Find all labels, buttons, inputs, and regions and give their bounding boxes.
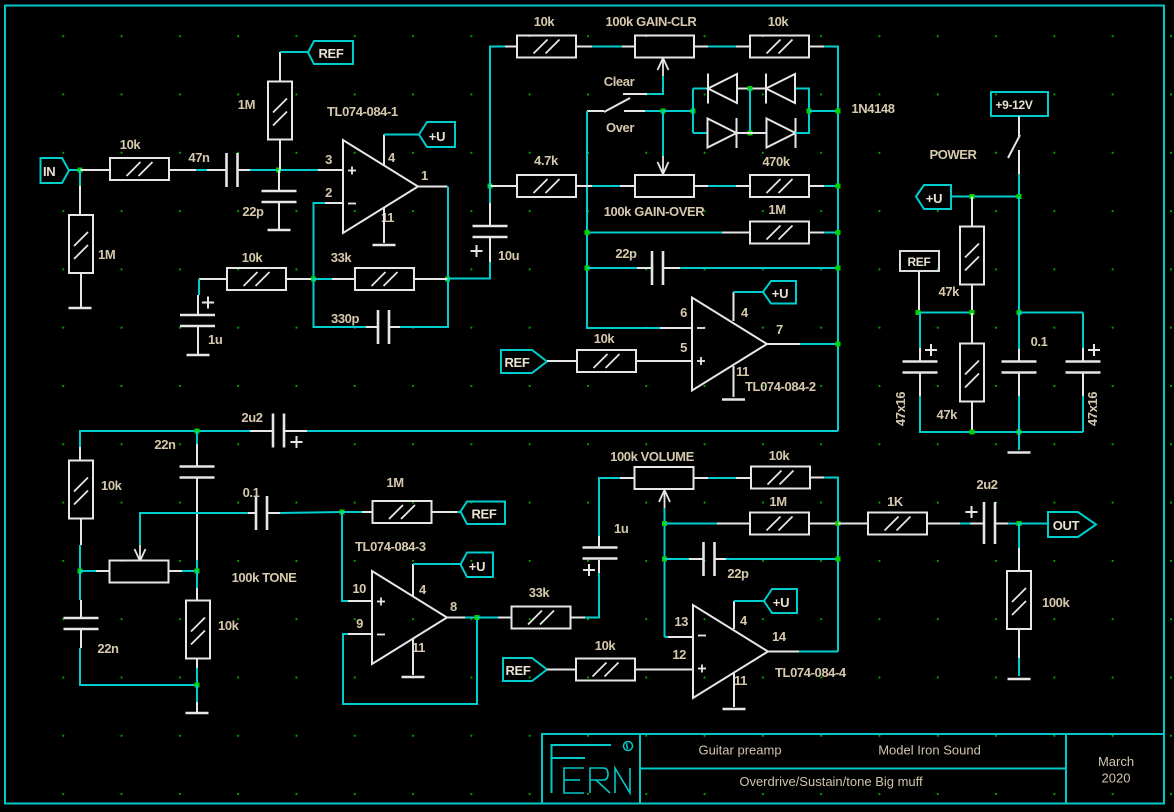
svg-text:10k: 10k bbox=[534, 14, 556, 29]
svg-text:3: 3 bbox=[325, 152, 332, 167]
svg-text:4: 4 bbox=[419, 582, 427, 597]
svg-text:Overdrive/Sustain/tone Big muf: Overdrive/Sustain/tone Big muff bbox=[739, 774, 923, 789]
wire node H to bus bbox=[809, 110, 838, 112]
svg-text:22p: 22p bbox=[727, 566, 749, 581]
svg-text:10k: 10k bbox=[101, 478, 123, 493]
svg-text:10u: 10u bbox=[498, 248, 520, 263]
resistor R8 4.7k bbox=[517, 175, 576, 197]
svg-text:Guitar preamp: Guitar preamp bbox=[698, 743, 781, 758]
capacitor C9 47x16 right bbox=[1082, 313, 1084, 349]
svg-text:6: 6 bbox=[680, 305, 687, 320]
wire output branch down bbox=[447, 187, 449, 280]
junction bus row1 bbox=[836, 109, 841, 114]
svg-text:0.1: 0.1 bbox=[243, 485, 260, 500]
node OUT junction bbox=[1017, 521, 1022, 526]
wire U1 output bbox=[418, 186, 448, 188]
node H junction diodes right bbox=[807, 109, 812, 114]
svg-text:47k: 47k bbox=[939, 284, 961, 299]
volume wiper arrow bbox=[659, 490, 670, 508]
junction diodes top middle bbox=[748, 86, 753, 91]
capacitor C10 2u2 tone bbox=[250, 430, 273, 432]
node K junction output bbox=[475, 615, 480, 620]
wire 1M row bbox=[587, 232, 722, 234]
svg-text:11: 11 bbox=[736, 364, 749, 379]
svg-text:TL074-084-3: TL074-084-3 bbox=[355, 539, 426, 554]
pin 11 ground bbox=[412, 639, 414, 675]
svg-text:330p: 330p bbox=[331, 311, 359, 326]
wire node D to R5 bbox=[314, 278, 333, 280]
junction bus row3 bbox=[836, 230, 841, 235]
svg-text:10k: 10k bbox=[594, 331, 616, 346]
svg-text:22n: 22n bbox=[154, 437, 176, 452]
title block divider middle bbox=[640, 768, 1066, 770]
connector OUT bbox=[1048, 512, 1096, 537]
resistor R7 10k top right bbox=[750, 36, 809, 58]
wire C1 to node B bbox=[238, 169, 250, 171]
ground power bbox=[1018, 432, 1020, 450]
wire R3 bottom to node B bbox=[279, 140, 281, 170]
wire node J to R16 bbox=[342, 511, 362, 513]
op-amp U4 TL074-084-4 bbox=[693, 605, 768, 698]
svg-text:100k: 100k bbox=[1042, 595, 1070, 610]
resistor R14 10k tone upper bbox=[79, 447, 81, 461]
wire node B to pin3 bbox=[279, 169, 319, 171]
svg-text:1u: 1u bbox=[208, 332, 223, 347]
capacitor C1 47n bbox=[227, 153, 238, 187]
wire pot to R9 bbox=[694, 185, 708, 187]
wire C16 to node OUT bbox=[995, 523, 1008, 525]
svg-text:0.1: 0.1 bbox=[1031, 334, 1048, 349]
power switch bbox=[1018, 116, 1020, 136]
wire REF box down bbox=[918, 271, 920, 313]
svg-text:4: 4 bbox=[741, 305, 749, 320]
node J junction bbox=[340, 510, 345, 515]
junction tone right bbox=[195, 569, 200, 574]
node D junction bbox=[311, 277, 316, 282]
junction bus2 1M row bbox=[836, 521, 841, 526]
svg-text:7: 7 bbox=[776, 322, 783, 337]
junction wiper 1M row bbox=[662, 521, 667, 526]
resistor R18 10k bbox=[751, 467, 810, 489]
wire pot left bbox=[96, 570, 110, 572]
wire R3 to REF flag bbox=[279, 52, 281, 81]
junction 22n top bbox=[195, 429, 200, 434]
title block outer bbox=[542, 734, 1164, 804]
ground tone bbox=[196, 685, 198, 702]
node A junction bbox=[78, 168, 83, 173]
junction bus2 22p row bbox=[836, 557, 841, 562]
capacitor C15 22p op4 bbox=[665, 558, 690, 560]
wire node K to R17 bbox=[477, 617, 498, 619]
svg-text:IN: IN bbox=[43, 164, 55, 179]
svg-text:47x16: 47x16 bbox=[1085, 392, 1100, 426]
resistor R16 1M bbox=[373, 501, 432, 523]
pin 11 ground bbox=[733, 672, 735, 707]
svg-text:1M: 1M bbox=[98, 247, 115, 262]
wire to R6 bbox=[505, 46, 517, 48]
svg-text:12: 12 bbox=[672, 647, 686, 662]
wire R6 to pot GAIN-CLR bbox=[576, 46, 592, 48]
label REF box power bbox=[900, 251, 939, 271]
svg-text:1M: 1M bbox=[769, 494, 786, 509]
svg-text:+U: +U bbox=[926, 191, 942, 206]
svg-text:9: 9 bbox=[356, 616, 363, 631]
pin 4 wire to +U bbox=[733, 292, 735, 321]
svg-text:POWER: POWER bbox=[929, 147, 977, 162]
potentiometer 100k GAIN-OVER bbox=[635, 175, 694, 197]
diode D1 bbox=[708, 74, 737, 104]
svg-text:REF: REF bbox=[505, 663, 530, 678]
capacitor C14 1u bbox=[598, 560, 600, 573]
resistor R5 33k bbox=[355, 268, 414, 290]
ground below R22 bbox=[1018, 629, 1020, 658]
pin 4 wire to +U bbox=[383, 135, 385, 166]
capacitor C6 10u bbox=[489, 186, 491, 203]
junction bus row2 bbox=[836, 184, 841, 189]
svg-text:11: 11 bbox=[734, 673, 747, 688]
capacitor C12 22n lower bbox=[79, 571, 81, 600]
svg-text:8: 8 bbox=[450, 599, 457, 614]
wire R5 to node C bbox=[413, 278, 448, 280]
wire R18 to bus2 bbox=[810, 477, 824, 479]
svg-text:OUT: OUT bbox=[1053, 518, 1080, 533]
wire pot right to R18 bbox=[694, 477, 708, 479]
junction tone ground node bbox=[195, 683, 200, 688]
node E junction 10u top bbox=[488, 184, 493, 189]
capacitor C2 22p bbox=[278, 170, 280, 191]
connector +U op3 bbox=[461, 553, 494, 578]
svg-text:10k: 10k bbox=[768, 14, 790, 29]
capacitor C13 0.1 tone out bbox=[248, 512, 256, 514]
svg-text:4.7k: 4.7k bbox=[534, 153, 559, 168]
node G junction diodes left bbox=[691, 109, 696, 114]
resistor R20 10k bbox=[576, 659, 635, 681]
capacitor C3 1u bbox=[198, 279, 200, 295]
wire +U to switch node bbox=[951, 196, 1019, 198]
capacitor C4 330p loop bbox=[314, 279, 367, 327]
ground below R2 bbox=[80, 273, 82, 307]
resistor R12 47k upper bbox=[971, 197, 973, 228]
svg-text:+U: +U bbox=[773, 595, 789, 610]
wire REF to R20 bbox=[547, 669, 576, 671]
wire R16 to REF flag bbox=[431, 511, 457, 513]
potentiometer 100k TONE bbox=[110, 561, 169, 583]
svg-text:33k: 33k bbox=[529, 585, 551, 600]
wire IN to node A bbox=[69, 169, 80, 171]
junction tone left bbox=[78, 569, 83, 574]
wire riser to top rail bbox=[490, 47, 505, 187]
node B junction bbox=[276, 168, 281, 173]
svg-text:TL074-084-1: TL074-084-1 bbox=[327, 104, 398, 119]
pin 4 wire to +U bbox=[733, 601, 735, 629]
wiper arrow GAIN-CLR bbox=[658, 58, 669, 76]
title block divider date bbox=[1065, 734, 1067, 804]
resistor R9 470k bbox=[750, 175, 809, 197]
pin 4 wire to +U bbox=[412, 564, 414, 596]
svg-text:2020: 2020 bbox=[1102, 771, 1131, 786]
+V rail down bbox=[1018, 197, 1020, 313]
resistor R6 10k top bbox=[517, 36, 576, 58]
resistor R21 1K bbox=[868, 513, 927, 535]
svg-text:1M: 1M bbox=[238, 97, 255, 112]
svg-text:+U: +U bbox=[772, 286, 788, 301]
svg-text:100k GAIN-CLR: 100k GAIN-CLR bbox=[606, 14, 698, 29]
svg-text:2u2: 2u2 bbox=[241, 410, 262, 425]
connector +U power bbox=[916, 185, 951, 209]
wire pin2 bbox=[325, 202, 343, 204]
resistor R13 47k lower bbox=[960, 344, 984, 402]
pin 9 feedback wire bbox=[348, 633, 372, 635]
switch pole wire bbox=[587, 110, 604, 112]
svg-text:1K: 1K bbox=[887, 494, 904, 509]
wire R9 to bus bbox=[809, 185, 824, 187]
ground below C3 bbox=[197, 326, 199, 354]
wire pot to R7 bbox=[694, 46, 708, 48]
svg-text:47k: 47k bbox=[937, 407, 959, 422]
svg-text:TL074-084-4: TL074-084-4 bbox=[775, 665, 847, 680]
wire 1M row op4 bbox=[665, 523, 718, 525]
svg-text:22p: 22p bbox=[242, 204, 264, 219]
connector +U op1 bbox=[419, 122, 455, 147]
node F junction Over bbox=[661, 109, 666, 114]
wire R10 to bus bbox=[809, 232, 824, 234]
diode D3 bbox=[708, 118, 737, 148]
REF rail bbox=[918, 312, 972, 314]
wire R19 to bus2 bbox=[809, 523, 838, 525]
resistor R4 10k feedback left bbox=[199, 278, 228, 280]
tone rail left corner bbox=[80, 431, 271, 447]
op-amp U3 TL074-084-3 bbox=[372, 571, 447, 664]
potentiometer 100k GAIN-CLR bbox=[635, 36, 694, 58]
diode bus right bbox=[796, 89, 810, 134]
junction bus row4 bbox=[836, 266, 841, 271]
pin 11 ground bbox=[733, 366, 735, 397]
svg-text:10k: 10k bbox=[242, 250, 264, 265]
node C junction 33k right bbox=[445, 277, 450, 282]
svg-text:4: 4 bbox=[388, 150, 396, 165]
op-amp U2 TL074-084-2 bbox=[692, 298, 767, 391]
switch lever bbox=[604, 98, 630, 112]
wire U4 output bbox=[768, 651, 799, 653]
svg-text:1N4148: 1N4148 bbox=[851, 101, 894, 116]
diode bus left bbox=[692, 89, 694, 134]
svg-text:TL074-084-2: TL074-084-2 bbox=[745, 379, 816, 394]
resistor R3 1M to REF bbox=[268, 82, 292, 140]
capacitor C11 22n upper bbox=[196, 431, 198, 444]
svg-text:REF: REF bbox=[907, 255, 930, 269]
resistor R1 10k bbox=[110, 158, 169, 180]
title block divider logo bbox=[639, 734, 641, 804]
svg-text:10: 10 bbox=[352, 581, 366, 596]
svg-text:100k TONE: 100k TONE bbox=[232, 570, 298, 585]
svg-text:22p: 22p bbox=[615, 246, 637, 261]
wire wiper GAIN-OVER bbox=[662, 111, 664, 157]
connector REF top bbox=[308, 41, 353, 64]
wire U2 output bbox=[767, 343, 800, 345]
svg-text:5: 5 bbox=[680, 340, 687, 355]
capacitor C16 2u2 out bbox=[984, 502, 995, 544]
svg-text:47n: 47n bbox=[188, 150, 210, 165]
svg-text:14: 14 bbox=[772, 629, 787, 644]
svg-text:13: 13 bbox=[674, 614, 688, 629]
svg-text:470k: 470k bbox=[762, 154, 790, 169]
wire D3-D4 bbox=[737, 132, 767, 134]
pin 11 ground bbox=[383, 208, 385, 243]
svg-text:10k: 10k bbox=[769, 448, 791, 463]
wire bus2 to R21 bbox=[838, 523, 868, 525]
svg-text:100k GAIN-OVER: 100k GAIN-OVER bbox=[604, 204, 706, 219]
wire to OUT flag bbox=[1019, 523, 1048, 525]
connector REF op3 bbox=[461, 502, 506, 525]
svg-text:+U: +U bbox=[469, 559, 485, 574]
svg-text:4: 4 bbox=[740, 613, 748, 628]
wire R21 to C16 bbox=[927, 523, 960, 525]
logo FERN bbox=[552, 742, 633, 794]
connector IN bbox=[41, 158, 70, 183]
connector +U op2 bbox=[763, 281, 796, 304]
svg-text:Model Iron Sound: Model Iron Sound bbox=[878, 743, 981, 758]
wire to pot VOLUME bbox=[620, 477, 634, 479]
wire U3 output bbox=[447, 617, 465, 619]
wire R20 to pin12 bbox=[635, 669, 693, 671]
svg-text:100k VOLUME: 100k VOLUME bbox=[610, 449, 694, 464]
svg-text:1M: 1M bbox=[386, 475, 403, 490]
diode D2 bbox=[766, 74, 795, 104]
svg-text:1: 1 bbox=[421, 168, 428, 183]
+V rail right bbox=[1019, 312, 1083, 314]
wire long rail to tone 2u2 bbox=[307, 430, 838, 432]
connector +U op4 bbox=[764, 589, 797, 613]
wire R4 to node D bbox=[285, 278, 314, 280]
wire node A to R1 bbox=[80, 169, 110, 171]
diode D4 bbox=[767, 118, 796, 148]
wire REF to R11 bbox=[547, 360, 577, 362]
svg-text:REF: REF bbox=[504, 355, 529, 370]
junction diodes bottom middle bbox=[748, 131, 753, 136]
svg-text:+9-12V: +9-12V bbox=[995, 98, 1033, 112]
connector REF op4 bbox=[503, 658, 547, 681]
wire node J down to pin10 bbox=[342, 512, 348, 601]
resistor R2 1M input pulldown bbox=[79, 170, 81, 186]
wire D1-D2 bbox=[737, 88, 766, 90]
capacitor C7 47x16 left bbox=[919, 313, 921, 349]
svg-text:47x16: 47x16 bbox=[893, 392, 908, 426]
wire R17 to 1u riser bbox=[570, 617, 585, 619]
capacitor C8 0.1 bbox=[1018, 313, 1020, 350]
svg-text:2u2: 2u2 bbox=[976, 477, 997, 492]
resistor R15 10k tone lower bbox=[196, 571, 198, 588]
wire R7 to bus bbox=[809, 46, 824, 48]
junction wiper 22p row bbox=[662, 557, 667, 562]
wire R1 to C1 bbox=[169, 169, 196, 171]
svg-text:10k: 10k bbox=[218, 618, 240, 633]
power ground rail bbox=[972, 431, 1083, 433]
resistor R17 33k bbox=[512, 607, 571, 629]
diode middle bus bbox=[749, 89, 751, 134]
svg-text:+U: +U bbox=[429, 129, 445, 144]
connector +9-12V bbox=[991, 92, 1048, 116]
svg-text:22n: 22n bbox=[97, 641, 119, 656]
connector REF mid bbox=[501, 350, 547, 373]
wire node F to diodes bbox=[663, 110, 693, 112]
op-amp U1 TL074-084-1 bbox=[343, 140, 418, 233]
svg-text:1M: 1M bbox=[768, 202, 785, 217]
svg-text:10k: 10k bbox=[595, 638, 617, 653]
svg-text:Over: Over bbox=[606, 120, 634, 135]
resistor R19 1M bbox=[750, 513, 809, 535]
svg-text:11: 11 bbox=[381, 210, 394, 225]
svg-text:1u: 1u bbox=[614, 521, 629, 536]
junction 1M row left bbox=[585, 230, 590, 235]
svg-text:March: March bbox=[1098, 754, 1134, 769]
junction bus output bbox=[836, 342, 841, 347]
svg-text:Clear: Clear bbox=[604, 74, 635, 89]
svg-text:2: 2 bbox=[325, 185, 332, 200]
potentiometer 100k VOLUME bbox=[635, 467, 694, 489]
resistor R22 100k out bbox=[1018, 524, 1020, 549]
svg-text:REF: REF bbox=[318, 46, 343, 61]
ground below C2 bbox=[278, 202, 280, 229]
wire wiper to pin13 bbox=[665, 636, 669, 638]
tone wiper arrow bbox=[135, 543, 146, 561]
wire node E to R8 bbox=[490, 185, 517, 187]
wire pot right bbox=[169, 570, 183, 572]
wire pin6 bbox=[660, 327, 692, 329]
svg-text:REF: REF bbox=[471, 507, 496, 522]
svg-text:33k: 33k bbox=[331, 250, 353, 265]
resistor R11 10k bbox=[577, 350, 636, 372]
wire R11 to pin5 bbox=[636, 360, 692, 362]
resistor R10 1M bbox=[750, 222, 809, 244]
svg-text:10k: 10k bbox=[120, 137, 142, 152]
capacitor C5 22p row bbox=[585, 266, 590, 271]
wire R8 to pot GAIN-OVER bbox=[576, 185, 592, 187]
